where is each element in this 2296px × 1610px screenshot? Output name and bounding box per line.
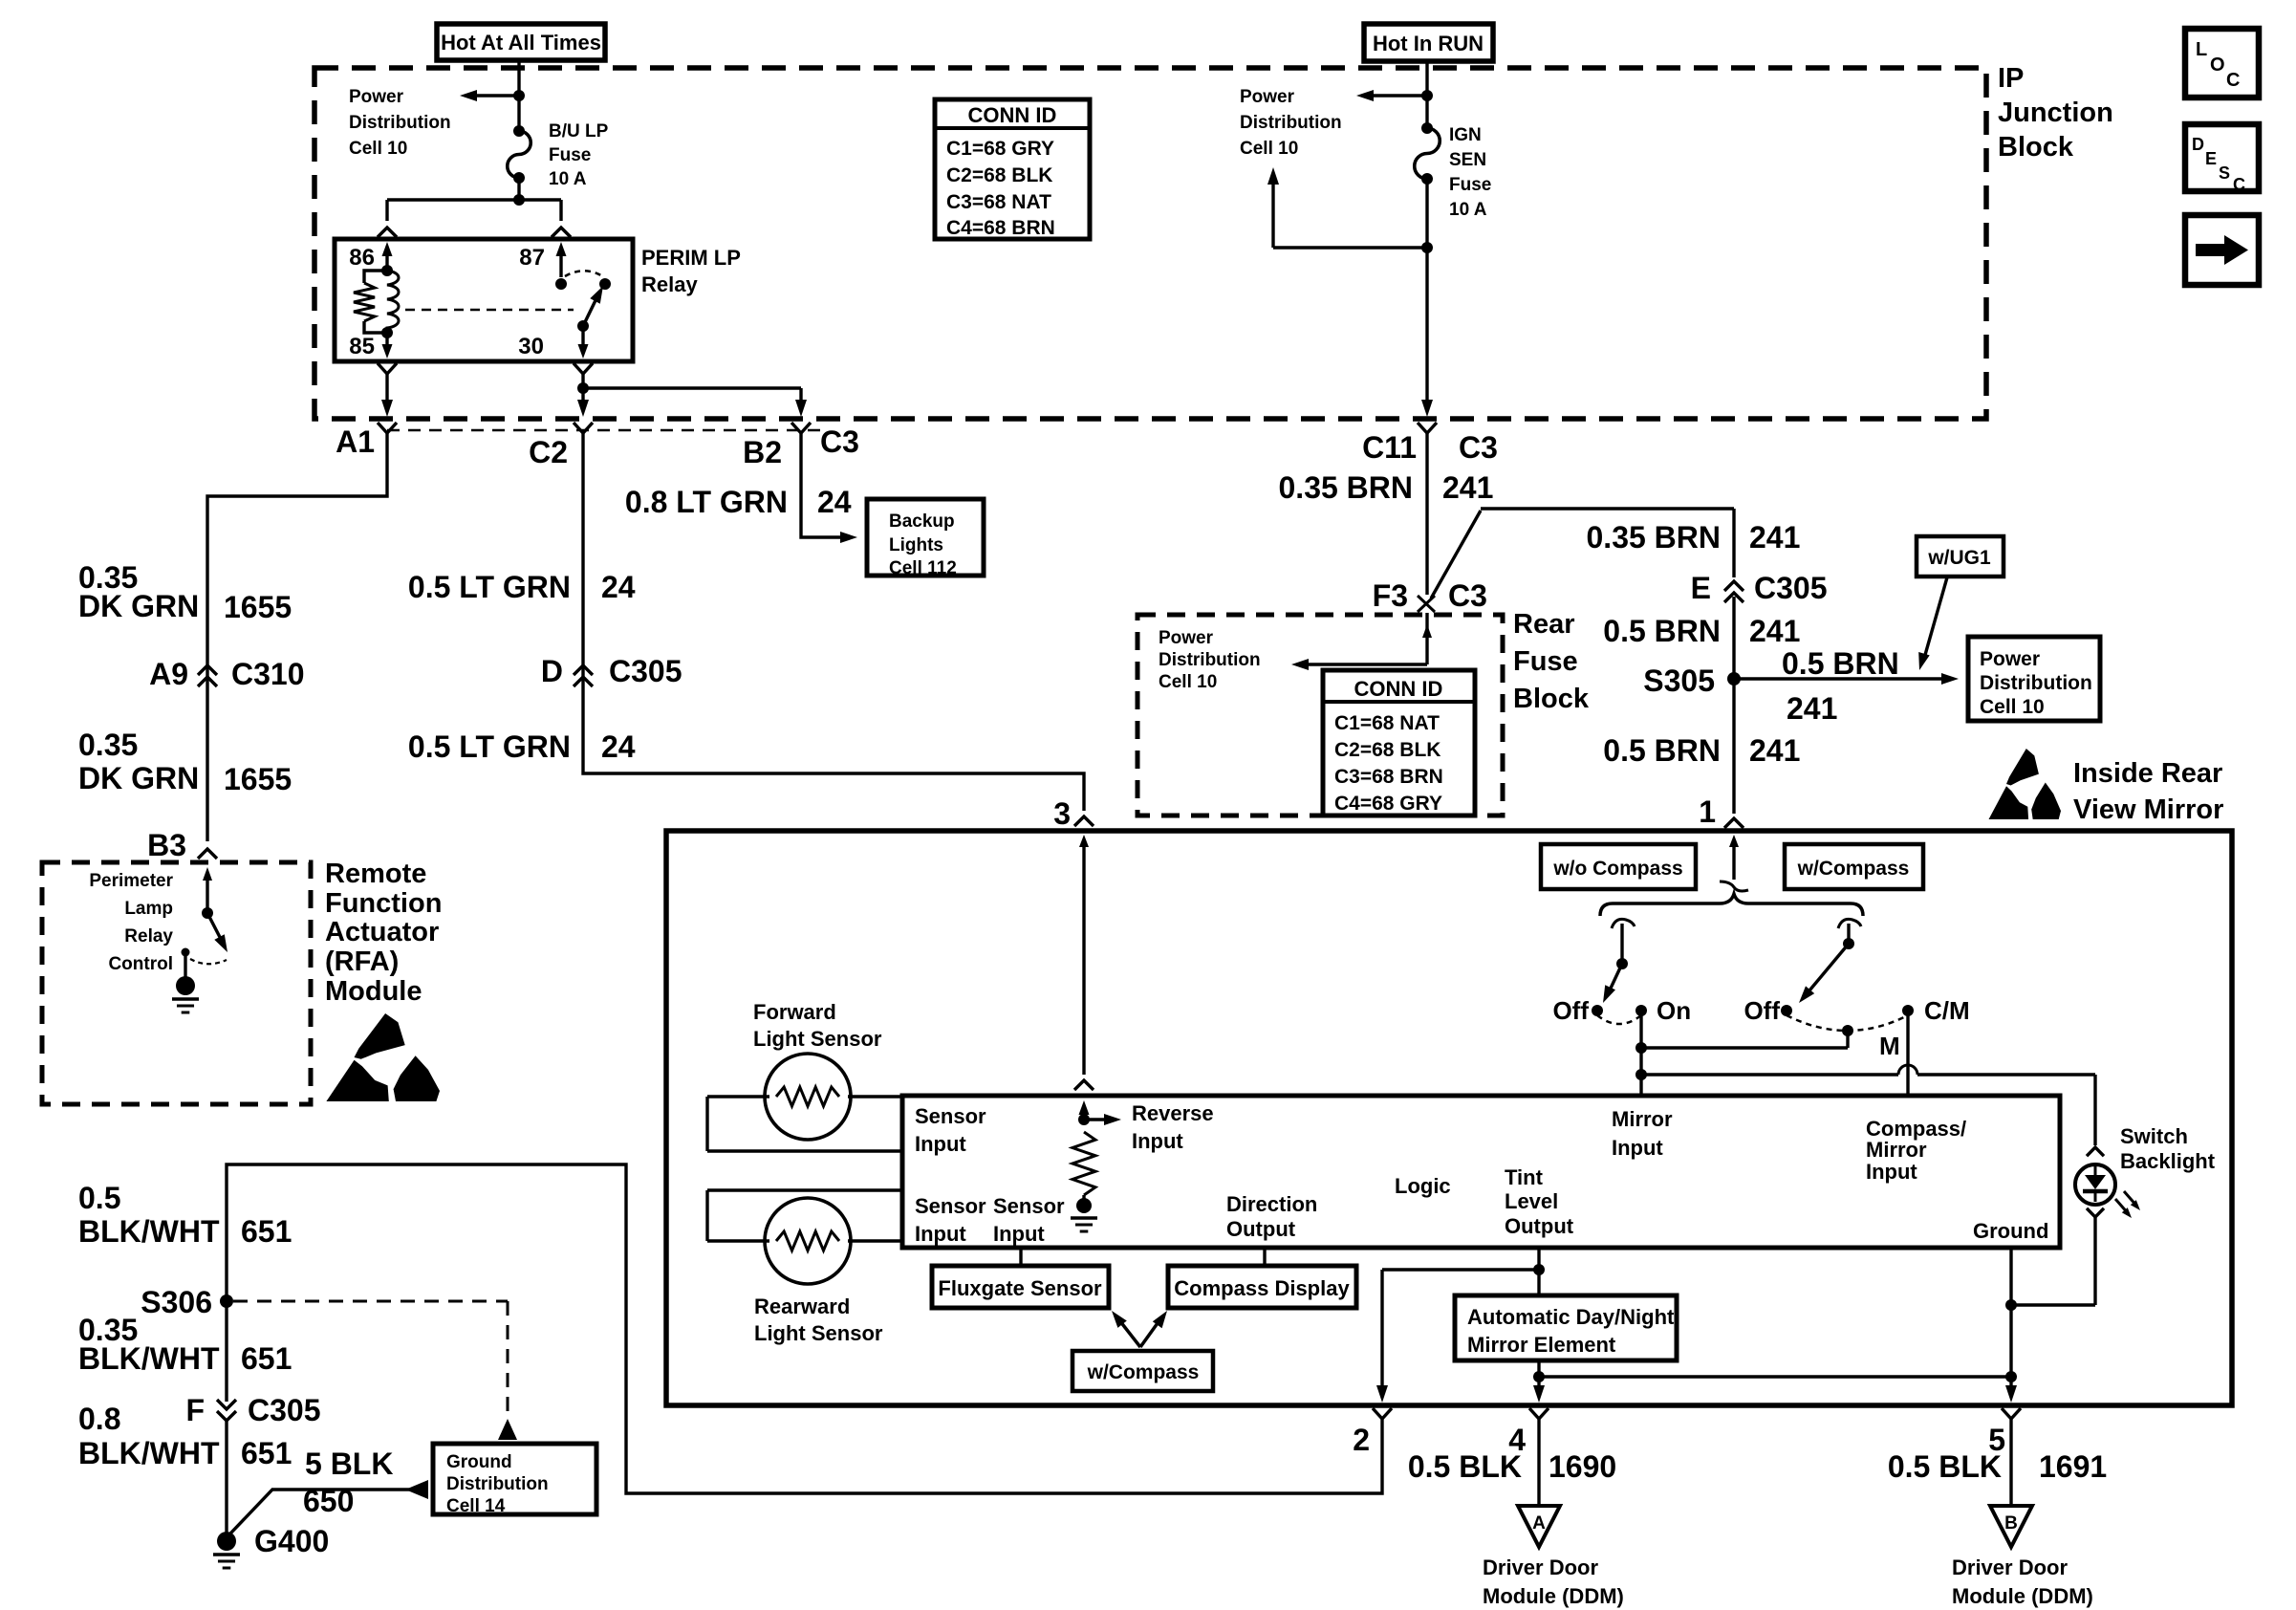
svg-text:C3: C3 (1459, 430, 1498, 465)
svg-text:C: C (2233, 175, 2245, 194)
svg-text:A: A (1532, 1513, 1546, 1534)
svg-text:B/U LP: B/U LP (549, 121, 609, 141)
DESC box (2185, 124, 2259, 191)
LED switch backlight (2087, 1147, 2104, 1156)
connector B2 C3 (791, 423, 811, 433)
CONN ID table (rear fuse block) (1323, 670, 1475, 816)
connector C2 (574, 423, 593, 433)
splice S305 (1727, 672, 1741, 685)
svg-text:Off: Off (1744, 996, 1780, 1025)
relay coil-switch dashed link (405, 309, 574, 312)
node power distribution tap (B/U LP) (513, 90, 525, 101)
svg-text:A9: A9 (149, 657, 188, 691)
svg-text:w/o Compass: w/o Compass (1552, 858, 1682, 880)
rearward light sensor (765, 1198, 851, 1284)
svg-text:Sensor: Sensor (915, 1194, 986, 1218)
svg-text:Module (DDM): Module (DDM) (1952, 1584, 2093, 1608)
wire LED to ground run (2093, 1216, 2096, 1305)
svg-text:Block: Block (1513, 684, 1590, 714)
svg-text:Backlight: Backlight (2120, 1149, 2216, 1173)
Backup Lights Cell 112 box (867, 499, 984, 576)
IP Junction Block dashed outline (314, 68, 1986, 419)
svg-text:0.8: 0.8 (78, 1402, 120, 1436)
wire pin 4 to triangle A (1537, 1432, 1540, 1504)
svg-text:1690: 1690 (1549, 1449, 1616, 1484)
svg-text:SEN: SEN (1449, 150, 1486, 170)
wire C11 to F3 (0.35 BRN 241) (1425, 446, 1428, 595)
connector 1 chevron (1724, 818, 1744, 828)
wire A1 to RFA module (0.35 DK GRN 1655) (207, 446, 387, 841)
svg-text:B: B (2004, 1513, 2018, 1534)
option brace (1600, 894, 1863, 916)
svg-text:Distribution: Distribution (446, 1474, 549, 1494)
svg-text:Logic: Logic (1395, 1174, 1451, 1198)
svg-text:Forward: Forward (753, 1000, 836, 1024)
svg-text:Switch: Switch (2120, 1124, 2188, 1148)
svg-text:C: C (2226, 70, 2240, 91)
mirror internal circuit box (902, 1096, 2060, 1248)
splice hook under pin 1 (1720, 881, 1748, 891)
connector E C305 (1724, 581, 1744, 591)
svg-text:Driver Door: Driver Door (1483, 1556, 1598, 1579)
wire F to G400 (225, 1419, 227, 1534)
fuse B/U LP 10A (513, 125, 525, 137)
connector A9 C310 (198, 665, 217, 675)
svg-text:86: 86 (349, 245, 375, 271)
Hot At All Times box (437, 24, 605, 60)
svg-text:Compass Display: Compass Display (1174, 1276, 1350, 1300)
svg-text:24: 24 (817, 485, 852, 519)
ESD symbol (mirror) (2006, 749, 2039, 786)
connector C11 C3 (1418, 423, 1437, 433)
svg-text:C2=68 BLK: C2=68 BLK (1334, 739, 1440, 761)
svg-text:241: 241 (1442, 470, 1493, 505)
svg-text:C3: C3 (820, 424, 859, 459)
RFA switch arrow to B3 (203, 867, 212, 881)
svg-text:C3: C3 (1448, 578, 1487, 613)
svg-text:Automatic Day/Night: Automatic Day/Night (1467, 1305, 1675, 1329)
svg-text:w/UG1: w/UG1 (1927, 547, 1991, 569)
wire F3 into Rear Fuse Block with arrow to Power Distribution (1425, 613, 1428, 664)
wire to Fluxgate Sensor (1019, 1248, 1022, 1266)
svg-text:Module (DDM): Module (DDM) (1483, 1584, 1624, 1608)
svg-text:C3=68 NAT: C3=68 NAT (946, 191, 1051, 213)
svg-text:BLK/WHT: BLK/WHT (78, 1214, 220, 1249)
w/Compass callout box (bottom) (1072, 1351, 1213, 1391)
svg-text:On: On (1657, 996, 1691, 1025)
svg-text:Output: Output (1505, 1214, 1574, 1238)
connector 5 (2002, 1408, 2021, 1419)
svg-text:C11: C11 (1362, 430, 1417, 465)
wire relay 30 to connectors C2 and B2 (581, 387, 584, 388)
wire fuse to relay branch node (517, 178, 520, 200)
svg-text:0.35 BRN: 0.35 BRN (1279, 470, 1414, 505)
svg-text:View Mirror: View Mirror (2073, 794, 2223, 825)
svg-text:Ground: Ground (1973, 1219, 2048, 1243)
w/o compass Off contact (1592, 1005, 1603, 1016)
wire mirror pin 3 to reverse input (1079, 835, 1089, 847)
svg-text:0.5 BRN: 0.5 BRN (1603, 733, 1721, 768)
wire from Hot In RUN to IGN SEN fuse (1425, 61, 1428, 128)
svg-text:30: 30 (518, 334, 544, 359)
svg-text:0.5 BRN: 0.5 BRN (1782, 646, 1899, 681)
w/o compass dashed throw arc (1597, 1015, 1641, 1024)
svg-text:Input: Input (915, 1222, 966, 1246)
triangle connector B (1990, 1506, 2032, 1547)
svg-text:1655: 1655 (224, 590, 292, 624)
svg-text:0.5 LT GRN: 0.5 LT GRN (408, 729, 571, 764)
svg-text:Backup: Backup (889, 511, 955, 532)
svg-text:10 A: 10 A (1449, 200, 1487, 220)
svg-text:B3: B3 (147, 828, 186, 862)
relay pin 87 arrow (559, 247, 562, 277)
relay pin 30 arrow (581, 326, 584, 352)
svg-text:C3=68 BRN: C3=68 BRN (1334, 766, 1443, 788)
svg-text:C4=68 BRN: C4=68 BRN (946, 217, 1055, 239)
svg-text:87: 87 (519, 245, 545, 271)
svg-text:Remote: Remote (325, 859, 426, 889)
svg-text:Level: Level (1505, 1189, 1558, 1213)
svg-text:Power: Power (1240, 87, 1295, 107)
svg-text:Cell 112: Cell 112 (889, 558, 957, 578)
svg-text:0.35 BRN: 0.35 BRN (1587, 520, 1722, 555)
svg-text:Tint: Tint (1505, 1165, 1544, 1189)
svg-text:Relay: Relay (124, 926, 173, 946)
svg-text:Input: Input (1132, 1129, 1183, 1153)
svg-text:F: F (185, 1393, 205, 1427)
Remote Function Actuator (RFA) Module dashed outline (42, 862, 311, 1104)
svg-text:E: E (2205, 149, 2217, 168)
wire mirror element to pin 4 (1537, 1360, 1540, 1396)
Compass Display box (1168, 1266, 1356, 1308)
svg-text:Input: Input (1866, 1160, 1917, 1184)
wire M contact link (1641, 1046, 1848, 1049)
node power distribution tap (IGN SEN) (1421, 90, 1433, 101)
connector B3 chevron (198, 849, 217, 859)
svg-text:S: S (2219, 163, 2230, 183)
wire S305 to Power Distribution Cell 10 (0.5 BRN 241) (1734, 677, 1950, 680)
connector chevron relay pin 86 (378, 228, 397, 237)
svg-text:Fuse: Fuse (1449, 175, 1491, 195)
fuse IGN SEN 10A (1421, 122, 1433, 134)
w/compass switch arm (1843, 938, 1854, 949)
svg-text:5 BLK: 5 BLK (305, 1447, 393, 1481)
wire relay 85 to connector A1 (385, 387, 388, 408)
svg-text:Fluxgate Sensor: Fluxgate Sensor (938, 1276, 1102, 1300)
svg-text:DK GRN: DK GRN (78, 761, 199, 795)
svg-text:(RFA): (RFA) (325, 946, 399, 977)
w/Compass box (top) (1785, 844, 1923, 889)
svg-text:651: 651 (241, 1436, 292, 1470)
w/UG1 box (1917, 536, 2004, 577)
svg-text:Mirror: Mirror (1612, 1107, 1673, 1131)
svg-text:D: D (541, 654, 563, 688)
relay switch movable arm pin 30 (577, 320, 589, 332)
w/Compass arrows (1116, 1316, 1140, 1347)
svg-text:Input: Input (915, 1132, 966, 1156)
connector 4 (1529, 1408, 1549, 1419)
w/compass dashed throw arc (1787, 1015, 1908, 1031)
svg-text:Sensor: Sensor (993, 1194, 1065, 1218)
svg-text:C/M: C/M (1924, 996, 1970, 1025)
svg-text:Function: Function (325, 888, 442, 919)
wire Tint Level Output (1537, 1248, 1540, 1295)
RFA switch arm (207, 913, 224, 945)
svg-text:Ground: Ground (446, 1452, 512, 1472)
w/o compass switch feed hook (1612, 919, 1635, 928)
wire ground bus to pin 5 (1539, 1375, 2011, 1378)
relay switch dashed throw arc (565, 271, 604, 277)
svg-text:1655: 1655 (224, 762, 292, 796)
wire C2 to mirror connector 3 (0.5 LT GRN 24) (583, 446, 1084, 811)
svg-text:Output: Output (1226, 1217, 1296, 1241)
w/o Compass box (1541, 844, 1696, 889)
svg-text:3: 3 (1053, 796, 1071, 831)
ESD symbol (RFA) (355, 1013, 405, 1059)
svg-text:10 A: 10 A (549, 169, 587, 189)
w/o compass On contact (1635, 1005, 1647, 1016)
dashed wire S306 to Ground Distribution (233, 1300, 508, 1303)
svg-text:Cell 10: Cell 10 (1240, 139, 1298, 159)
wire arrow up to Power Distribution Cell 10 (1273, 246, 1427, 249)
svg-text:Hot In RUN: Hot In RUN (1373, 32, 1484, 55)
Fluxgate Sensor box (932, 1266, 1109, 1308)
svg-text:IGN: IGN (1449, 125, 1482, 145)
svg-text:Block: Block (1998, 132, 2074, 163)
svg-text:Power: Power (1159, 628, 1214, 648)
svg-text:Light Sensor: Light Sensor (753, 1027, 882, 1051)
splice S306 (220, 1295, 233, 1308)
svg-text:Light Sensor: Light Sensor (754, 1321, 883, 1345)
connector chevron relay pin 87 (552, 228, 571, 237)
svg-text:C310: C310 (231, 657, 305, 691)
svg-text:Power: Power (1980, 648, 2040, 670)
svg-text:651: 651 (241, 1341, 292, 1376)
svg-text:0.5 BLK: 0.5 BLK (1408, 1449, 1522, 1484)
wire mirror pin 1 into switch splice (1729, 835, 1739, 847)
w/compass switch feed hook (1838, 919, 1861, 928)
w/compass Off contact (1781, 1005, 1792, 1016)
svg-text:Reverse: Reverse (1132, 1101, 1214, 1125)
svg-text:S305: S305 (1643, 664, 1715, 698)
w/UG1 arrow (1923, 577, 1947, 662)
wire IGN SEN fuse down to C11 (1425, 179, 1428, 408)
svg-text:Input: Input (1612, 1136, 1663, 1160)
wire diagonal F3 to S305 riser (1431, 511, 1481, 598)
wire S306 to F (225, 1301, 227, 1402)
LED light emission arrows (2115, 1199, 2129, 1214)
svg-text:B2: B2 (743, 435, 782, 469)
svg-text:Distribution: Distribution (1240, 113, 1342, 133)
wire B2 to Backup Lights (0.8 LT GRN 24) (801, 446, 849, 537)
svg-text:Mirror Element: Mirror Element (1467, 1333, 1616, 1357)
svg-text:2: 2 (1353, 1423, 1370, 1457)
svg-text:E: E (1691, 571, 1711, 605)
svg-text:A1: A1 (336, 424, 375, 459)
svg-text:Distribution: Distribution (1980, 672, 2092, 694)
connector F3 C3 cross symbol (1418, 596, 1435, 612)
svg-text:24: 24 (601, 729, 636, 764)
svg-text:Input: Input (993, 1222, 1045, 1246)
svg-text:0.5 BRN: 0.5 BRN (1603, 614, 1721, 648)
svg-text:0.35: 0.35 (78, 728, 138, 762)
svg-text:Relay: Relay (641, 272, 698, 296)
svg-text:85: 85 (349, 334, 375, 359)
svg-text:0.5 LT GRN: 0.5 LT GRN (408, 570, 571, 604)
wire from Hot At All Times to B/U LP fuse (517, 60, 520, 131)
connector chevron below relay pin 85 (378, 363, 397, 374)
svg-text:24: 24 (601, 570, 636, 604)
svg-text:241: 241 (1787, 691, 1837, 726)
svg-text:Rearward: Rearward (754, 1295, 850, 1318)
svg-text:DK GRN: DK GRN (78, 589, 199, 623)
LOC box (2185, 29, 2259, 98)
svg-text:Cell 14: Cell 14 (446, 1496, 506, 1516)
svg-text:Distribution: Distribution (349, 113, 451, 133)
svg-text:241: 241 (1749, 733, 1800, 768)
RFA switch dashed arc (190, 959, 227, 964)
CONN ID table (IP junction block) (935, 99, 1090, 239)
forward arrow box (2185, 215, 2259, 285)
svg-text:M: M (1879, 1032, 1900, 1060)
svg-text:C1=68 GRY: C1=68 GRY (946, 138, 1054, 160)
svg-text:Cell 10: Cell 10 (1159, 672, 1217, 692)
svg-text:Actuator: Actuator (325, 917, 439, 947)
svg-text:241: 241 (1749, 614, 1800, 648)
svg-text:Distribution: Distribution (1159, 650, 1261, 670)
svg-text:CONN ID: CONN ID (968, 103, 1057, 127)
wire pin 5 to triangle B (2009, 1432, 2012, 1504)
w/compass M contact (1842, 1025, 1853, 1036)
svg-text:C2=68 BLK: C2=68 BLK (946, 164, 1052, 186)
connector chevron below relay pin 30 (574, 363, 593, 374)
wire arrow to Power Distribution Cell 10 (left) (468, 94, 519, 97)
wire branch to relay pins 86 and 87 (387, 198, 561, 201)
connector 3 chevron (1074, 816, 1094, 826)
svg-text:Inside Rear: Inside Rear (2073, 758, 2222, 789)
wire switch to backlight LED with hop (1641, 1073, 1898, 1076)
svg-text:Fuse: Fuse (549, 145, 591, 165)
svg-text:w/Compass: w/Compass (1797, 858, 1910, 880)
w/o compass switch arm (1616, 958, 1628, 969)
Power Distribution Cell 10 box (right) (1968, 637, 2100, 721)
w/compass C/M contact (1902, 1005, 1914, 1016)
relay pin 85 arrow (385, 333, 388, 352)
svg-text:Direction: Direction (1226, 1192, 1317, 1216)
svg-text:Off: Off (1552, 996, 1589, 1025)
svg-text:C4=68 GRY: C4=68 GRY (1334, 793, 1442, 815)
svg-text:Lamp: Lamp (124, 899, 173, 919)
svg-text:F3: F3 (1373, 578, 1408, 613)
Rear Fuse Block dashed outline (1137, 615, 1503, 816)
svg-text:651: 651 (241, 1214, 292, 1249)
svg-text:Rear: Rear (1513, 609, 1575, 640)
svg-text:Perimeter: Perimeter (89, 871, 173, 891)
relay PERIM LP box (335, 239, 633, 361)
svg-text:PERIM LP: PERIM LP (641, 246, 741, 270)
wire riser to mirror connector 1 (0.35/0.5 BRN 241) (1732, 509, 1735, 577)
svg-text:Power: Power (349, 87, 404, 107)
svg-text:C305: C305 (1754, 571, 1828, 605)
Automatic Day/Night Mirror Element box (1455, 1295, 1677, 1360)
svg-text:IP: IP (1998, 63, 2024, 94)
relay switch fixed contacts (555, 278, 567, 290)
svg-text:G400: G400 (254, 1524, 329, 1558)
svg-text:Cell 10: Cell 10 (349, 139, 407, 159)
svg-text:CONN ID: CONN ID (1354, 677, 1443, 701)
svg-text:Mirror: Mirror (1866, 1138, 1927, 1162)
svg-text:L: L (2196, 39, 2207, 60)
svg-text:Junction: Junction (1998, 98, 2113, 128)
svg-text:C305: C305 (609, 654, 682, 688)
svg-text:BLK/WHT: BLK/WHT (78, 1436, 220, 1470)
connector in-line dashed separator (387, 429, 824, 432)
wire pin 2 ground return to S306/G400 (227, 1164, 1382, 1493)
svg-text:S306: S306 (141, 1285, 212, 1319)
svg-text:C2: C2 (529, 435, 568, 469)
svg-text:1: 1 (1699, 794, 1716, 829)
wire On contact to Mirror Input (1639, 1011, 1642, 1096)
relay pin 86 arrow (385, 247, 388, 271)
Hot In RUN box (1364, 24, 1493, 61)
ground G400 (217, 1532, 236, 1551)
svg-text:Fuse: Fuse (1513, 646, 1578, 677)
wire to mirror pin 2 (1382, 1268, 1539, 1271)
connector A1 (378, 423, 397, 433)
svg-text:Lights: Lights (889, 535, 943, 555)
svg-text:BLK/WHT: BLK/WHT (78, 1341, 220, 1376)
svg-text:w/Compass: w/Compass (1087, 1361, 1200, 1383)
triangle connector A (1518, 1506, 1560, 1547)
svg-text:0.5: 0.5 (78, 1181, 120, 1215)
connector D C305 (574, 665, 593, 675)
svg-text:Control: Control (108, 954, 173, 974)
svg-text:241: 241 (1749, 520, 1800, 555)
Ground Distribution Cell 14 box (433, 1444, 596, 1514)
svg-text:Hot At All Times: Hot At All Times (441, 31, 601, 54)
wire arrow to Power Distribution Cell 10 (middle) (1365, 94, 1427, 97)
svg-text:Module: Module (325, 976, 422, 1007)
reverse input resistor to ground (1079, 1100, 1090, 1115)
svg-text:D: D (2192, 135, 2204, 154)
Inside Rear View Mirror box (666, 831, 2232, 1405)
svg-text:0.8 LT GRN: 0.8 LT GRN (625, 485, 788, 519)
svg-text:Driver Door: Driver Door (1952, 1556, 2068, 1579)
svg-text:C305: C305 (248, 1393, 321, 1427)
RFA switch post and ground (182, 948, 190, 957)
svg-text:0.5 BLK: 0.5 BLK (1888, 1449, 2002, 1484)
svg-text:Sensor: Sensor (915, 1104, 986, 1128)
wire to Compass Display (1263, 1248, 1266, 1266)
connector 2 (1373, 1408, 1392, 1419)
svg-text:650: 650 (303, 1484, 354, 1518)
relay coil and resistor between pins 86 and 85 (381, 265, 393, 276)
svg-text:1691: 1691 (2039, 1449, 2107, 1484)
svg-text:O: O (2210, 54, 2225, 76)
svg-text:Cell 10: Cell 10 (1980, 696, 2045, 718)
svg-text:C1=68 NAT: C1=68 NAT (1334, 712, 1440, 734)
connector F C305 (217, 1400, 236, 1409)
wire C/M contact to Compass/Mirror Input (1906, 1011, 1909, 1096)
wire G400 to Ground Distribution (5 BLK 650) (230, 1490, 426, 1534)
